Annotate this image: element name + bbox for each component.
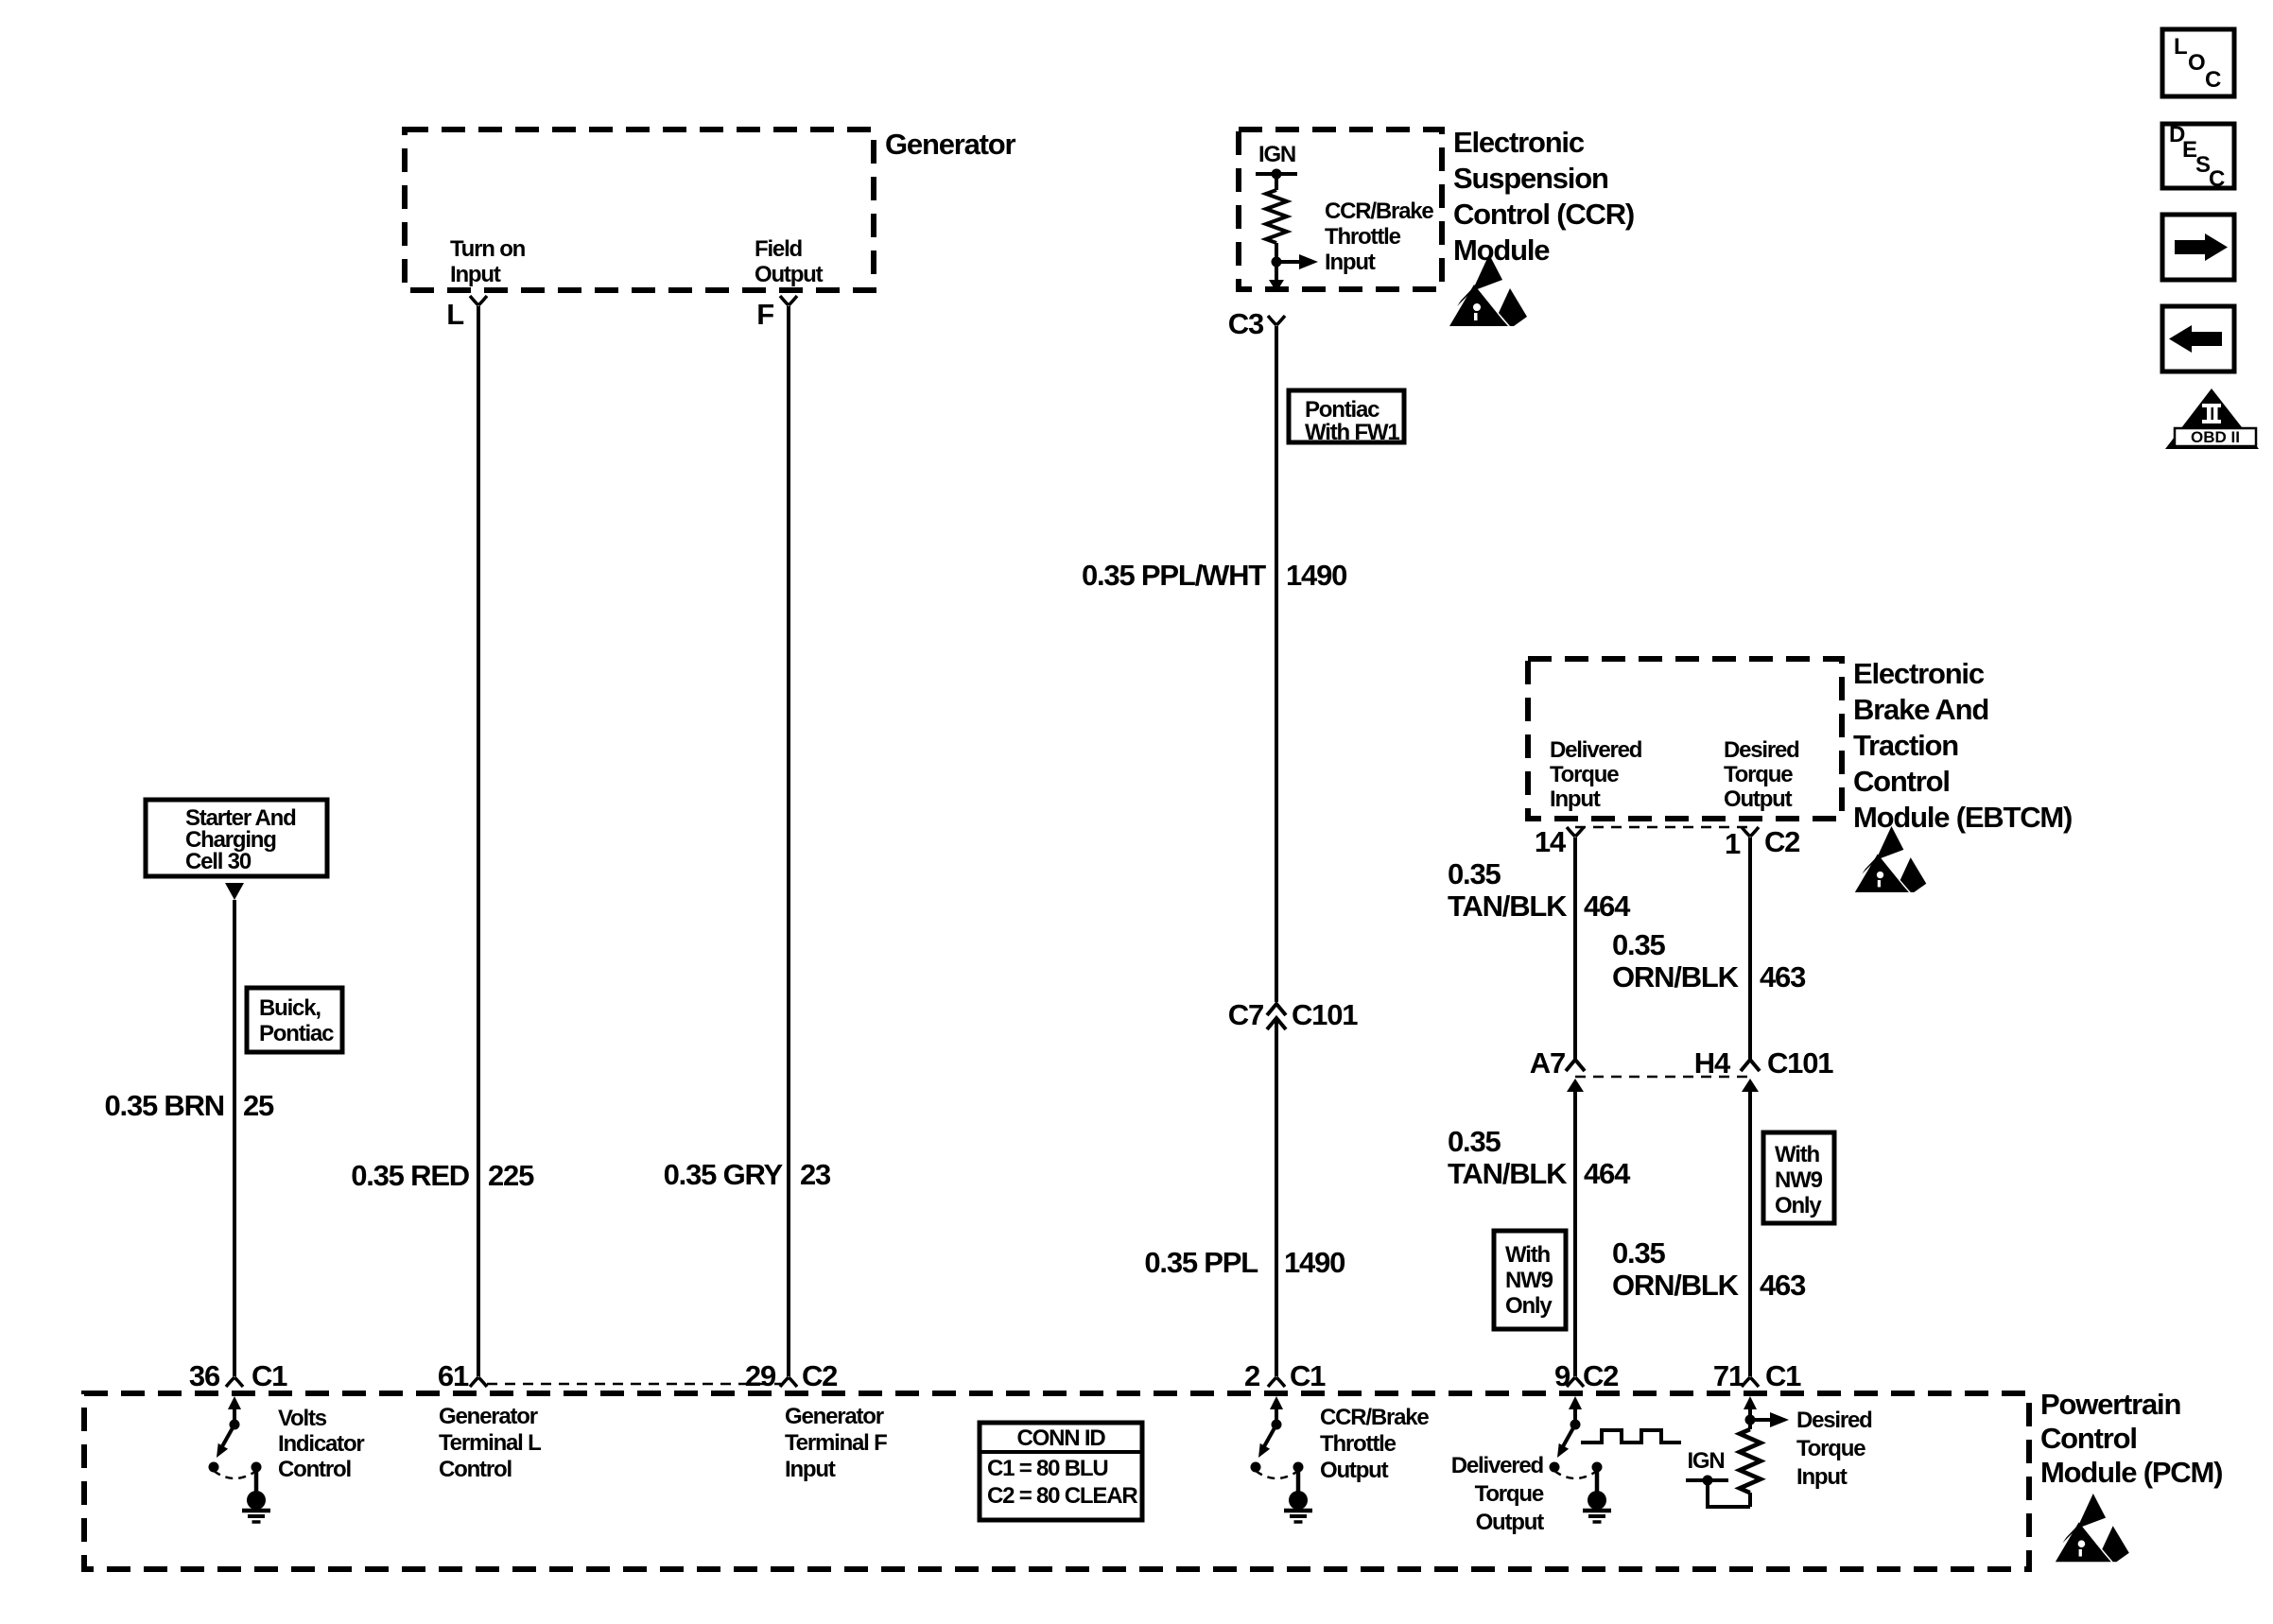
svg-text:Pontiac: Pontiac xyxy=(1305,397,1379,423)
label box Pontiac With FW1 xyxy=(1289,390,1404,442)
svg-text:464: 464 xyxy=(1584,890,1631,923)
label box CONN ID xyxy=(980,1423,1142,1520)
svg-text:Generator: Generator xyxy=(785,1404,884,1429)
svg-text:36: 36 xyxy=(189,1359,220,1392)
svg-text:C1: C1 xyxy=(1765,1359,1801,1392)
module box Powertrain Control Module (PCM) xyxy=(84,1393,2029,1569)
svg-text:F: F xyxy=(756,298,773,331)
inline connector C7 / C101 xyxy=(1267,1004,1286,1029)
svg-text:Electronic: Electronic xyxy=(1853,657,1985,690)
svg-text:C3: C3 xyxy=(1228,307,1264,340)
svg-text:Input: Input xyxy=(785,1457,836,1482)
svg-text:Control: Control xyxy=(439,1457,512,1482)
svg-text:1490: 1490 xyxy=(1284,1246,1345,1279)
module box Electronic Brake And Traction Control Module (EBTCM) xyxy=(1528,659,1842,819)
svg-text:IGN: IGN xyxy=(1687,1448,1724,1474)
switch CCR/Brake Throttle Output xyxy=(1251,1396,1313,1522)
svg-text:Field: Field xyxy=(755,236,803,262)
male arrow H4 xyxy=(1742,1079,1759,1092)
svg-text:L: L xyxy=(2174,34,2187,60)
svg-text:C1 = 80 BLU: C1 = 80 BLU xyxy=(987,1456,1108,1481)
wire 0.35 BRN 25 xyxy=(233,900,236,1376)
pin 36 C1 xyxy=(226,1377,243,1387)
svg-text:Powertrain: Powertrain xyxy=(2040,1388,2180,1421)
svg-text:C2: C2 xyxy=(1764,825,1799,858)
svg-text:Throttle: Throttle xyxy=(1320,1431,1397,1457)
resistor (CCR/Brake Throttle pull-up) xyxy=(1275,174,1278,190)
svg-text:Torque: Torque xyxy=(1724,762,1793,787)
svg-text:Module (PCM): Module (PCM) xyxy=(2040,1456,2222,1489)
svg-text:Delivered: Delivered xyxy=(1451,1453,1544,1478)
wire 0.35 ORN/BLK 463 (lower) xyxy=(1748,1089,1752,1376)
svg-text:Brake And: Brake And xyxy=(1853,693,1988,726)
svg-text:Control: Control xyxy=(278,1457,351,1482)
square wave signal xyxy=(1581,1430,1681,1443)
svg-text:Cell 30: Cell 30 xyxy=(185,849,252,874)
svg-text:71: 71 xyxy=(1713,1359,1744,1392)
svg-text:Torque: Torque xyxy=(1796,1436,1865,1461)
pin C3 connector xyxy=(1268,316,1285,325)
svg-text:With: With xyxy=(1505,1242,1551,1268)
svg-text:225: 225 xyxy=(488,1159,534,1192)
svg-text:Only: Only xyxy=(1775,1193,1822,1218)
svg-text:C: C xyxy=(2205,67,2221,93)
switch Volts Indicator Control xyxy=(209,1396,271,1522)
svg-text:9: 9 xyxy=(1554,1359,1570,1392)
svg-text:Terminal F: Terminal F xyxy=(785,1430,887,1456)
svg-text:Desired: Desired xyxy=(1724,737,1799,763)
svg-text:Generator: Generator xyxy=(439,1404,538,1429)
svg-text:Torque: Torque xyxy=(1550,762,1619,787)
svg-text:0.35 GRY: 0.35 GRY xyxy=(664,1158,784,1191)
svg-text:IGN: IGN xyxy=(1258,142,1295,167)
male arrow A7 xyxy=(1567,1079,1584,1092)
node IGN pin71 xyxy=(1686,1478,1728,1482)
svg-text:C101: C101 xyxy=(1292,998,1358,1031)
wire 0.35 TAN/BLK 464 (upper) xyxy=(1573,838,1577,1059)
label box With NW9 Only (right) xyxy=(1763,1132,1834,1223)
svg-text:0.35 PPL: 0.35 PPL xyxy=(1144,1246,1258,1279)
svg-text:Torque: Torque xyxy=(1475,1481,1544,1507)
wire to IGN xyxy=(1708,1480,1750,1507)
svg-text:0.35: 0.35 xyxy=(1448,857,1501,890)
svg-text:C2: C2 xyxy=(802,1359,837,1392)
svg-text:1490: 1490 xyxy=(1286,559,1346,592)
svg-text:NW9: NW9 xyxy=(1505,1268,1553,1293)
label box Starter And Charging Cell 30 xyxy=(146,800,327,876)
svg-text:Output: Output xyxy=(1320,1458,1389,1483)
svg-text:C101: C101 xyxy=(1767,1046,1833,1080)
icon arrow right xyxy=(2162,215,2234,280)
svg-text:Delivered: Delivered xyxy=(1550,737,1642,763)
svg-text:14: 14 xyxy=(1535,825,1567,858)
svg-text:Generator: Generator xyxy=(885,128,1015,161)
svg-text:Output: Output xyxy=(1476,1510,1545,1535)
module box Electronic Suspension Control (CCR) Module xyxy=(1239,130,1442,289)
svg-text:61: 61 xyxy=(438,1359,469,1392)
svg-text:CCR/Brake: CCR/Brake xyxy=(1325,199,1433,224)
arrow Desired Torque Input xyxy=(1750,1418,1770,1422)
svg-text:With: With xyxy=(1775,1142,1820,1167)
svg-text:CCR/Brake: CCR/Brake xyxy=(1320,1405,1429,1430)
pin 14 connector xyxy=(1567,827,1584,837)
label box With NW9 Only (left) xyxy=(1494,1231,1566,1329)
svg-text:463: 463 xyxy=(1760,960,1806,993)
svg-text:Buick,: Buick, xyxy=(259,995,321,1021)
label box Buick, Pontiac xyxy=(247,988,342,1052)
arrow up pin71 xyxy=(1744,1396,1757,1409)
EBTCM pin link dashed xyxy=(1575,826,1750,829)
svg-text:29: 29 xyxy=(745,1359,776,1392)
svg-text:A7: A7 xyxy=(1530,1046,1565,1080)
svg-text:2: 2 xyxy=(1244,1359,1259,1392)
pin 2 C1 xyxy=(1268,1377,1285,1387)
off-page arrow xyxy=(225,883,244,900)
svg-text:Control: Control xyxy=(2040,1422,2137,1455)
svg-text:463: 463 xyxy=(1760,1269,1806,1302)
icon OBD II triangle xyxy=(2165,389,2259,449)
pin 71 C1 xyxy=(1742,1377,1759,1387)
arrow CCR/Brake Throttle Input xyxy=(1276,260,1299,264)
svg-text:ORN/BLK: ORN/BLK xyxy=(1612,1269,1740,1302)
pin 29 C2 xyxy=(780,1377,797,1387)
svg-text:464: 464 xyxy=(1584,1157,1631,1190)
svg-text:Input: Input xyxy=(1550,786,1601,812)
svg-text:C2 = 80 CLEAR: C2 = 80 CLEAR xyxy=(987,1483,1137,1509)
ESD symbol (PCM) xyxy=(2056,1494,2129,1562)
wire 0.35 GRY 23 (generator F to PCM 29) xyxy=(787,306,790,1376)
svg-text:Desired: Desired xyxy=(1796,1408,1872,1433)
svg-text:NW9: NW9 xyxy=(1775,1167,1823,1193)
wire 0.35 PPL/WHT 1490 xyxy=(1275,326,1278,1002)
svg-text:1: 1 xyxy=(1725,827,1741,860)
svg-text:L: L xyxy=(446,298,463,331)
PCM pin link dashed 61-29 xyxy=(487,1383,781,1386)
svg-text:With FW1: With FW1 xyxy=(1305,420,1399,445)
wire 0.35 TAN/BLK 464 (lower) xyxy=(1573,1089,1577,1376)
svg-text:OBD II: OBD II xyxy=(2191,428,2240,446)
svg-text:Electronic: Electronic xyxy=(1453,126,1585,159)
svg-text:Suspension: Suspension xyxy=(1453,162,1608,195)
svg-text:C1: C1 xyxy=(1290,1359,1326,1392)
node junction pin71 xyxy=(1745,1415,1756,1425)
icon LOC xyxy=(2162,29,2234,96)
svg-text:Control (CCR): Control (CCR) xyxy=(1453,198,1634,231)
svg-text:Traction: Traction xyxy=(1853,729,1958,762)
svg-text:Output: Output xyxy=(1724,786,1793,812)
svg-text:0.35 PPL/WHT: 0.35 PPL/WHT xyxy=(1082,559,1266,592)
svg-text:Pontiac: Pontiac xyxy=(259,1021,334,1046)
wire 0.35 ORN/BLK 463 (upper) xyxy=(1748,838,1752,1059)
svg-text:Output: Output xyxy=(755,262,824,287)
svg-text:TAN/BLK: TAN/BLK xyxy=(1448,890,1568,923)
C101 link dashed xyxy=(1575,1076,1750,1079)
arrow to pin C3 xyxy=(1275,262,1278,280)
svg-text:Input: Input xyxy=(450,262,501,287)
svg-text:Module (EBTCM): Module (EBTCM) xyxy=(1853,801,2072,834)
svg-text:Control: Control xyxy=(1853,765,1950,798)
pin 61 xyxy=(470,1377,487,1387)
svg-text:0.35 BRN: 0.35 BRN xyxy=(104,1089,224,1122)
svg-text:Only: Only xyxy=(1505,1293,1553,1319)
svg-text:23: 23 xyxy=(800,1158,831,1191)
svg-text:H4: H4 xyxy=(1694,1046,1731,1080)
svg-text:Indicator: Indicator xyxy=(278,1431,364,1457)
svg-text:C1: C1 xyxy=(252,1359,287,1392)
wire 0.35 PPL 1490 xyxy=(1275,1021,1278,1376)
svg-text:0.35: 0.35 xyxy=(1612,1236,1665,1270)
svg-text:Volts: Volts xyxy=(278,1406,327,1431)
svg-text:C: C xyxy=(2209,166,2225,192)
svg-text:ORN/BLK: ORN/BLK xyxy=(1612,960,1740,993)
svg-text:C2: C2 xyxy=(1583,1359,1618,1392)
svg-text:Input: Input xyxy=(1796,1464,1848,1490)
ESD symbol (CCR) xyxy=(1449,254,1527,326)
pin 9 C2 xyxy=(1567,1377,1584,1387)
svg-text:Module: Module xyxy=(1453,233,1550,267)
svg-text:Terminal L: Terminal L xyxy=(439,1430,541,1456)
svg-text:C7: C7 xyxy=(1228,998,1263,1031)
svg-text:CONN ID: CONN ID xyxy=(1017,1425,1106,1451)
ESD symbol (EBTCM) xyxy=(1855,826,1926,892)
svg-text:Input: Input xyxy=(1325,250,1376,275)
pin F connector xyxy=(780,296,797,305)
svg-text:0.35: 0.35 xyxy=(1612,928,1665,961)
svg-text:25: 25 xyxy=(243,1089,274,1122)
resistor pin71 xyxy=(1748,1420,1752,1429)
svg-text:O: O xyxy=(2188,50,2205,76)
icon DESC xyxy=(2162,124,2234,188)
switch Delivered Torque Output xyxy=(1550,1396,1612,1522)
svg-text:Throttle: Throttle xyxy=(1325,224,1401,250)
svg-text:Turn on: Turn on xyxy=(450,236,526,262)
svg-text:TAN/BLK: TAN/BLK xyxy=(1448,1157,1568,1190)
icon arrow left xyxy=(2162,306,2234,371)
pin L connector xyxy=(470,296,487,305)
pin 1 / C2 connector xyxy=(1742,827,1759,837)
svg-text:0.35 RED: 0.35 RED xyxy=(351,1159,470,1192)
module box Generator xyxy=(405,130,874,290)
node junction xyxy=(1272,257,1282,268)
svg-text:0.35: 0.35 xyxy=(1448,1125,1501,1158)
wire 0.35 RED 225 (generator L to PCM 61) xyxy=(477,306,480,1376)
